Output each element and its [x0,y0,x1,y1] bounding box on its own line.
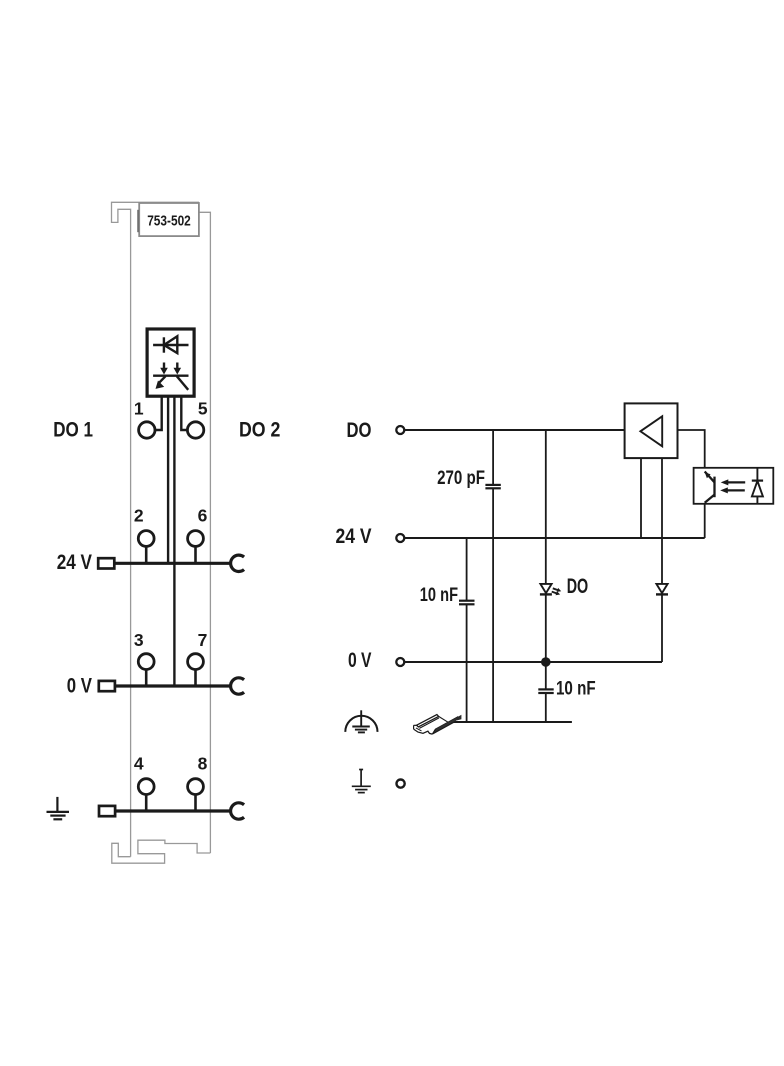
functional earth terminal [397,780,405,788]
contact 5 [187,422,203,438]
capacitor C3 10 nF [538,689,553,693]
contact 2 [138,531,154,547]
wire 24V rail [404,537,704,539]
driver U2 triangle [640,416,662,446]
wire U2 output to optocoupler [678,430,705,468]
protective earth symbol [345,710,377,732]
module outline [112,202,211,856]
capacitor C2 10 nF branch wire [466,538,468,601]
earth bus bar [114,809,230,812]
capacitor C2 10 nF [459,601,475,605]
svg-text:10 nF: 10 nF [420,585,458,606]
capacitor C1 270 pF branch wire [492,430,494,485]
diode symbol top (inside U1) [153,336,188,353]
wire DO rail [404,429,624,431]
wire optocoupler to 24V rail [704,504,706,538]
wire pair from U1 to 24V bus [167,396,169,563]
pin wire to contact 1 [155,396,161,430]
svg-text:753-502: 753-502 [147,212,191,229]
earth square terminal [99,806,115,816]
svg-text:6: 6 [198,506,208,526]
contact 4 [138,779,154,795]
svg-text:270 pF: 270 pF [437,468,485,489]
svg-text:5: 5 [198,399,208,419]
wire U2 right pin through 24V to 0V [661,458,663,662]
optocoupler U3 transistor [705,472,715,503]
contact 1 [139,422,155,438]
svg-text:DO: DO [567,574,589,598]
svg-text:DO 2: DO 2 [239,418,280,442]
module foot (DIN rail cutout) [112,840,211,863]
contact 6 [188,531,204,547]
svg-text:4: 4 [134,754,144,774]
DIN rail icon [414,715,462,735]
24V square terminal [98,558,114,568]
diode D2 [656,584,667,593]
node 24V terminal [396,534,404,542]
wire from U1 through 24V bus to 0V bus [173,396,175,686]
photodiode symbol bottom (inside U1) [153,363,188,390]
functional earth symbol [352,770,371,793]
0V square terminal [99,681,115,691]
capacitor C3 10 nF branch wire [545,662,547,689]
LED D1 emission arrows [552,588,558,593]
svg-text:10 nF: 10 nF [556,678,596,699]
node 0V terminal [396,658,404,666]
svg-text:DO: DO [347,418,372,442]
optocoupler U3 box [694,468,774,504]
svg-text:8: 8 [198,754,208,774]
wire 0V rail [404,661,662,663]
svg-text:7: 7 [198,630,208,650]
svg-text:24 V: 24 V [336,524,373,548]
optocoupler U3 diode [756,468,758,504]
LED D1 branch wire [545,430,547,662]
LED D1 [540,584,551,593]
svg-text:3: 3 [134,630,144,650]
svg-text:DO 1: DO 1 [53,418,93,442]
node DO terminal [396,426,404,434]
wire U2 left pin to 24V [640,458,642,538]
contact 3 [138,654,154,670]
ground symbol (left of earth bus) [47,797,70,819]
earth rail (bottom) [450,721,572,723]
driver U2 box [625,403,678,458]
0V bus bar [114,684,231,687]
pin wire to contact 5 [181,396,187,430]
contact 8 [188,779,204,795]
junction dot 0V/LED [541,657,551,667]
label box 753-502 [139,203,199,236]
24V bus bar [114,562,231,565]
optocoupler U3 light arrows [727,482,745,490]
svg-text:0 V: 0 V [348,648,372,672]
earth clamp hook [231,803,244,819]
LED indicator box U1 [147,329,194,396]
svg-text:2: 2 [134,506,144,526]
label box shadow line [137,210,139,232]
0V clamp hook [231,678,244,694]
capacitor C1 270 pF [485,485,500,488]
contact 7 [188,654,204,670]
24V clamp hook [231,555,244,571]
svg-text:0 V: 0 V [67,674,93,698]
svg-text:24 V: 24 V [57,550,93,574]
svg-text:1: 1 [134,399,144,419]
